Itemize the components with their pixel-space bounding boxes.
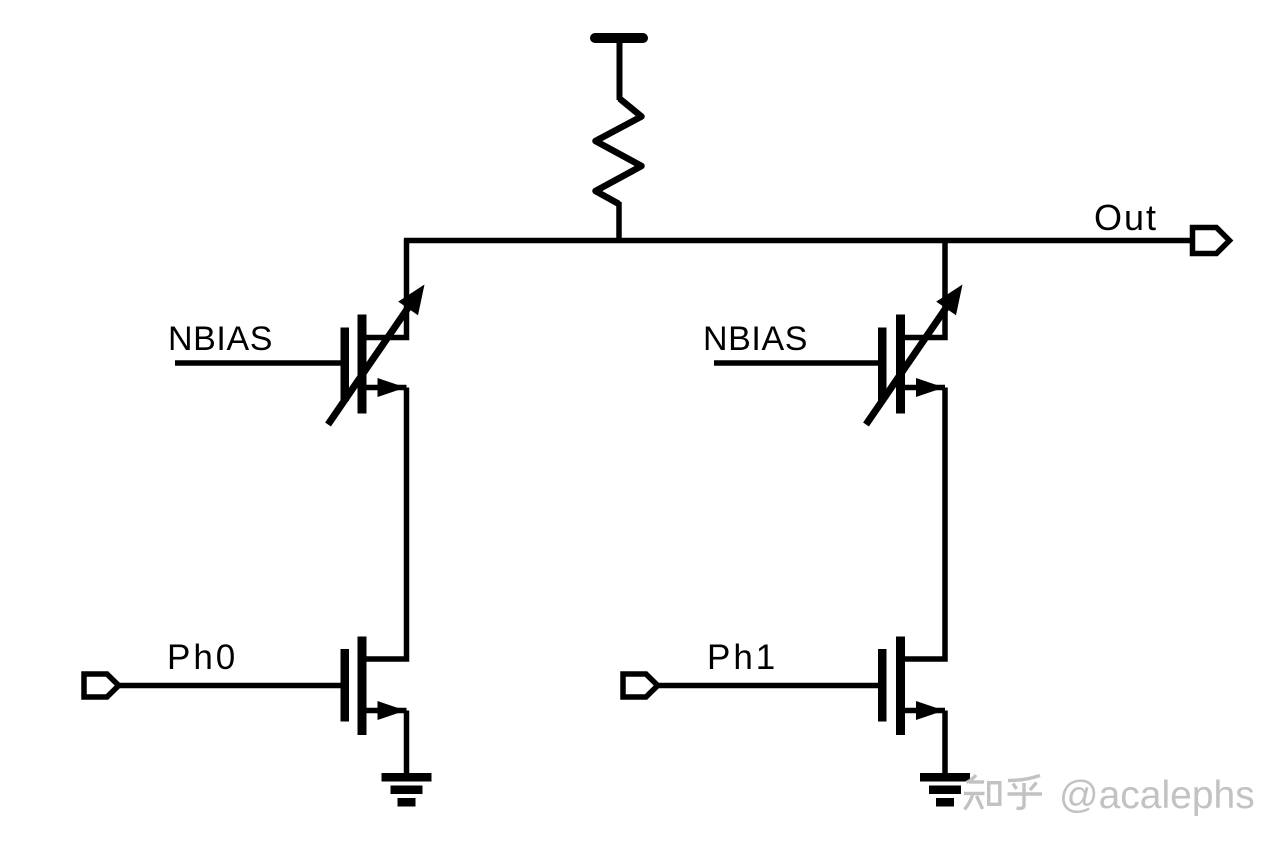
wire NBIAS right gate [714,360,879,366]
source lead M2 [905,385,946,391]
wire NBIAS left gate [175,360,341,366]
source lead M3 [366,708,407,714]
channel bar M2 [896,315,905,414]
svg-text:NBIAS: NBIAS [703,320,808,358]
source lead M1 [366,385,407,391]
channel bar M3 [358,637,367,736]
wire bus left corner down to M1 drain [366,239,407,338]
wire M1 source to M3 drain [366,388,407,660]
svg-text:Out: Out [1094,197,1158,238]
transistor M4 (NMOS, Ph1) [878,637,945,736]
wire Ph0 gate [119,683,341,689]
resistor R1 [596,99,642,205]
variable arrow M1 [328,305,410,425]
transistor M3 (NMOS, Ph0) [341,637,407,736]
source lead M4 [905,708,946,714]
power rail VDD [595,38,643,100]
pin Out output [1193,228,1230,254]
wire Ph1 gate [658,683,879,689]
channel bar M4 [896,637,905,736]
gate bar M3 [341,649,350,722]
ground GND right [920,773,970,807]
ground GND left [382,773,432,807]
watermark zhihu logo 乎 [1008,776,1043,809]
source arrow M2 [916,378,944,397]
wire bus T down to M2 drain [905,239,946,338]
svg-text:Ph0: Ph0 [167,638,238,677]
svg-text:Ph1: Ph1 [707,638,778,677]
svg-text:@acalephs: @acalephs [1059,774,1255,817]
wire M4 source to ground [942,711,948,775]
transistor M2 (variable NMOS, right NBIAS) [866,285,963,425]
source arrow M1 [378,378,406,397]
gate bar M4 [878,649,887,722]
watermark zhihu logo 知 [964,775,1000,810]
source arrow M4 [916,701,944,720]
pin Ph1 input [623,674,658,697]
node Out bus [404,238,1190,244]
gate bar M1 [341,328,350,402]
wire M3 source to ground [404,711,410,775]
gate bar M2 [878,328,887,402]
wire M2 source to M4 drain [905,388,946,660]
channel bar M1 [358,315,367,414]
variable arrow M2 [866,305,948,425]
transistor M1 (variable NMOS, left NBIAS) [328,285,425,425]
svg-text:NBIAS: NBIAS [168,320,273,358]
source arrow M3 [378,701,406,720]
pin Ph0 input [84,674,119,697]
wire resistor bottom to Out bus [616,202,622,241]
